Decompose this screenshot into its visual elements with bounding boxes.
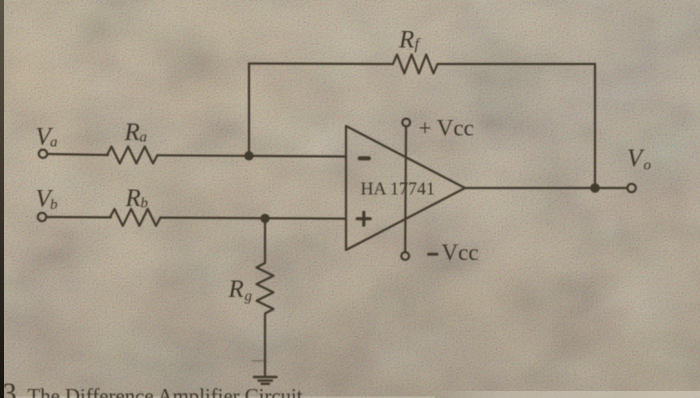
svg-text:R: R bbox=[398, 27, 414, 54]
wire Vb to Rb bbox=[46, 216, 111, 219]
ground bbox=[254, 377, 277, 384]
wire Rb to op-amp non-inverting input bbox=[161, 218, 347, 219]
resistor Rg bbox=[257, 263, 274, 313]
svg-text:R: R bbox=[124, 119, 140, 146]
resistor Ra bbox=[107, 147, 158, 164]
+Vcc supply wire bbox=[404, 127, 407, 252]
terminal Va bbox=[39, 150, 47, 158]
resistor Rb bbox=[110, 209, 161, 226]
wire feedback right segment bbox=[438, 63, 596, 65]
svg-text:a: a bbox=[140, 130, 148, 146]
stray print mark near ground bbox=[252, 360, 266, 362]
svg-text:g: g bbox=[245, 289, 253, 305]
wire junction up to feedback line bbox=[248, 64, 250, 156]
svg-text:The Difference Amplifier Circu: The Difference Amplifier Circuit bbox=[28, 385, 303, 398]
wire junction down to Rg bbox=[264, 218, 266, 263]
wire Rg to ground bbox=[264, 315, 266, 377]
svg-text:R: R bbox=[125, 185, 141, 212]
wire feedback down to output node bbox=[594, 64, 596, 188]
op-amp plus input sign bbox=[357, 212, 370, 225]
node: feedback junction on inverting line bbox=[244, 151, 253, 160]
wire Va to Ra bbox=[47, 154, 108, 155]
svg-text:3.: 3. bbox=[3, 379, 24, 398]
wire Ra to op-amp inverting input bbox=[158, 155, 347, 156]
svg-text:b: b bbox=[50, 197, 58, 213]
svg-text:HA 17741: HA 17741 bbox=[361, 179, 436, 199]
resistor Rf bbox=[393, 55, 437, 74]
node: Rg junction on non-inverting line bbox=[260, 214, 269, 223]
op-amp output wire bbox=[465, 187, 628, 189]
+Vcc terminal circle bbox=[402, 119, 410, 127]
svg-text:+ Vcc: + Vcc bbox=[419, 116, 474, 141]
op-amp U1 triangle bbox=[346, 126, 465, 250]
label -Vcc minus dash bbox=[429, 253, 438, 256]
terminal Vb bbox=[38, 213, 46, 221]
wire feedback left segment bbox=[249, 62, 393, 65]
terminal Vo bbox=[627, 184, 635, 192]
op-amp minus input sign bbox=[360, 156, 369, 160]
svg-text:a: a bbox=[50, 135, 58, 151]
svg-text:R: R bbox=[228, 276, 244, 303]
svg-text:Vcc: Vcc bbox=[442, 240, 479, 265]
node: output junction bbox=[590, 183, 600, 193]
svg-text:o: o bbox=[644, 158, 652, 174]
-Vcc terminal circle bbox=[401, 252, 409, 260]
svg-text:b: b bbox=[141, 196, 149, 212]
